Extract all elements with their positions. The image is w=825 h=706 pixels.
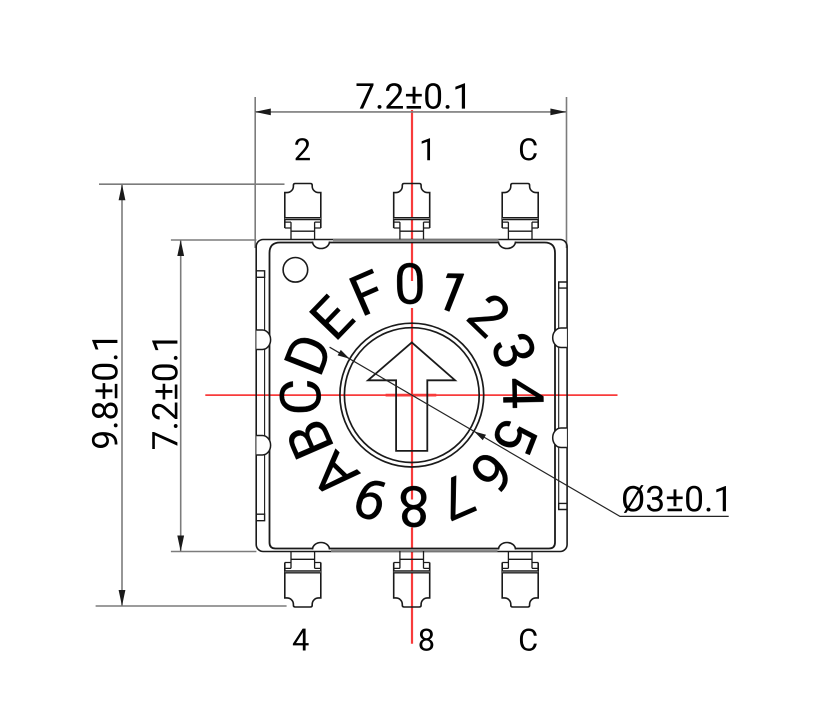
dia text O3 +/-0.1 [623, 485, 726, 513]
top edge notch left [313, 241, 330, 254]
ring char F [349, 269, 388, 316]
ring char 4 [503, 378, 544, 408]
ring char 3 [490, 330, 538, 370]
dim text 9.8 +/-0.1 (vertical) [92, 340, 118, 448]
ring char 2 [466, 291, 514, 339]
ring char 7 [436, 474, 477, 522]
pin top 1 [394, 184, 430, 240]
top dim arrow right [550, 109, 566, 116]
bottom edge notch right [499, 538, 516, 551]
pin bottom 8 [394, 551, 430, 607]
hex ring characters [279, 263, 543, 528]
dimension 7.2 left inner [171, 240, 257, 552]
ring char 9 [352, 476, 390, 523]
ring char 1 [435, 268, 464, 311]
dim text 7.2 +/-0.1 (vertical) [152, 340, 178, 449]
pin top 2 [285, 184, 321, 240]
pin label C bottom [520, 628, 537, 650]
ring char A [308, 449, 361, 502]
ring char E [309, 294, 356, 340]
left edge bottom step [256, 514, 264, 521]
9.8 dim arrow bottom [119, 590, 126, 606]
pin label 8 [419, 628, 433, 650]
red vertical centerline [411, 110, 413, 644]
left edge bump 2 [256, 436, 270, 456]
pin bottom 4 [285, 551, 321, 607]
ring char 8 [401, 486, 427, 528]
top edge notch right [499, 241, 516, 254]
7.2 vert dim arrow bottom [177, 536, 184, 552]
ring char 0 [397, 263, 423, 305]
ring char C [279, 381, 321, 413]
bottom gray band [331, 549, 498, 552]
pin label 4 [293, 629, 309, 651]
top gray band [333, 239, 499, 242]
leader arrowhead lower [474, 431, 486, 440]
bottom edge notch left [313, 538, 330, 551]
index circle [283, 258, 308, 283]
top dim arrow left [255, 109, 271, 116]
body face outline [270, 243, 556, 549]
pin label C top [520, 138, 537, 160]
pin bottom C [502, 551, 538, 607]
dim line [255, 111, 567, 113]
pin label 2 [295, 138, 310, 160]
left edge bump 1 [256, 330, 270, 350]
dim text 7.2 +/-0.1 (top) [356, 83, 465, 109]
7.2 vert dim arrow top [177, 240, 184, 256]
ring char D [284, 333, 332, 375]
right edge bottom step [559, 503, 567, 509]
red horizontal centerline [205, 394, 617, 396]
9.8 dim arrow top [119, 184, 126, 200]
left edge top step [256, 271, 264, 278]
right edge bump 2 [553, 428, 567, 448]
right edge bump 1 [553, 328, 567, 348]
body flange outline [256, 240, 567, 552]
leader arrowhead upper [338, 350, 350, 359]
ring char B [285, 418, 333, 459]
pin top C [502, 184, 538, 240]
diameter leader line [330, 347, 729, 516]
dial outer circle [340, 323, 484, 467]
right edge mid line [558, 288, 560, 503]
dial arrow [368, 342, 455, 451]
dimension 9.8 left: extension lines [96, 184, 287, 606]
right edge top step [559, 282, 567, 288]
pin label 1 [422, 138, 430, 160]
left edge mid line [264, 277, 266, 514]
ring char 5 [491, 418, 538, 456]
dial inner circle [344, 328, 479, 463]
dimension 7.2 top: extension lines [255, 97, 567, 248]
ring char 6 [468, 450, 515, 496]
